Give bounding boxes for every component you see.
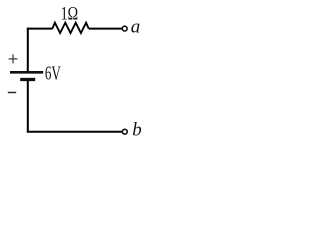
svg-text:a: a	[131, 17, 141, 38]
battery 6V: negative (short) plate	[20, 78, 35, 81]
svg-text:1Ω: 1Ω	[61, 4, 79, 25]
wire: top-left horizontal segment	[27, 28, 53, 30]
resistor R1 zigzag body	[52, 23, 88, 33]
node b terminal circle	[122, 129, 127, 134]
label: − polarity sign	[8, 92, 16, 94]
wire: left vertical segment (bottom)	[27, 80, 29, 133]
wire: bottom horizontal segment	[27, 131, 122, 133]
svg-text:6V: 6V	[45, 64, 61, 85]
wire: left vertical segment (top)	[27, 28, 29, 72]
battery 6V: positive (long) plate	[10, 71, 43, 74]
node a terminal circle	[122, 26, 127, 31]
svg-text:b: b	[132, 120, 142, 141]
label: + polarity sign	[9, 54, 18, 63]
wire: top-right horizontal segment	[89, 28, 122, 30]
